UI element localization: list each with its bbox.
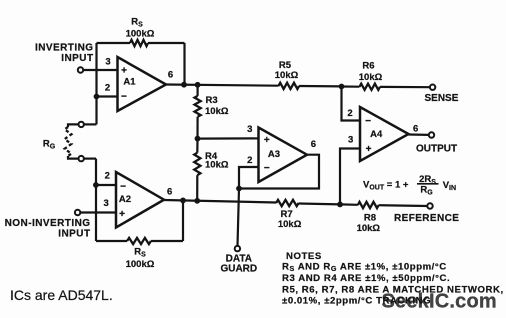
svg-text:6: 6	[413, 123, 418, 134]
wire RS top rail left segment	[97, 42, 131, 44]
op-amp A2	[116, 172, 164, 228]
wire data guard drop	[238, 189, 240, 246]
wire A2 output rail to R7	[164, 200, 276, 203]
svg-text:R8: R8	[364, 213, 376, 224]
node junction RS bottom leg / A2 output	[180, 198, 186, 204]
svg-text:INPUT: INPUT	[61, 53, 93, 64]
node: OUTPUT terminal	[429, 132, 434, 137]
wire left vertical rail (RG bottom / A2 pin2 / RS bottom)	[95, 159, 97, 241]
wire A3 pin 3	[198, 137, 259, 139]
wire junction to R6	[342, 85, 360, 87]
wire RS bottom right leg up to A2 output	[182, 200, 184, 241]
wire inverting input to A1 pin 3	[83, 69, 117, 71]
svg-text:100kΩ: 100kΩ	[126, 29, 155, 40]
node junction R7/R8/A4 pin3	[337, 202, 343, 208]
svg-text:100kΩ: 100kΩ	[126, 259, 155, 270]
svg-text:2: 2	[347, 108, 352, 119]
svg-text:3: 3	[105, 56, 110, 67]
svg-text:10kΩ: 10kΩ	[357, 223, 381, 234]
node: non-inverting input terminal	[75, 210, 80, 215]
node: RG top terminal	[79, 122, 84, 127]
svg-text:6: 6	[168, 70, 173, 81]
node junction A3 feedback / data guard	[236, 186, 242, 192]
svg-text:SeekIC.com: SeekIC.com	[382, 291, 497, 313]
node junction A1 pin2 / RG-top rail	[94, 94, 100, 100]
resistor R8	[358, 202, 379, 208]
wire R7 to reference junction	[299, 202, 340, 205]
svg-text:A4: A4	[370, 129, 383, 140]
svg-text:10kΩ: 10kΩ	[205, 106, 229, 117]
svg-text:−: −	[365, 116, 371, 127]
svg-text:3: 3	[247, 124, 252, 135]
svg-text:R3 AND R4 ARE ±1%, ±50ppm/°C.: R3 AND R4 ARE ±1%, ±50ppm/°C.	[282, 273, 450, 284]
svg-text:+: +	[264, 135, 270, 146]
label output equation VOUT = 1 + 2RS/RG VIN	[363, 174, 456, 197]
svg-text:A1: A1	[123, 77, 136, 88]
svg-text:3: 3	[104, 198, 109, 209]
node junction A2 pin2 / RG-bottom rail	[93, 182, 99, 188]
svg-text:2: 2	[105, 82, 110, 93]
wire left vertical rail (RS top feedback / A1 pin2 / RG top)	[95, 43, 97, 124]
node junction R3/R4/A3 pin3	[195, 136, 201, 142]
svg-text:10kΩ: 10kΩ	[205, 160, 229, 171]
svg-text:INPUT: INPUT	[58, 228, 90, 239]
svg-text:+: +	[119, 209, 125, 220]
wire A1 output rail to R5	[166, 85, 279, 86]
wire A1 pin 2	[97, 95, 118, 97]
wire A3 pin 2 hook	[239, 167, 259, 189]
node junction R5/R6/A4 pin2	[339, 84, 345, 90]
wire A4 pin 3 hook	[340, 149, 360, 205]
wire A4 pin 2 hook	[342, 87, 361, 121]
wire junction to R8	[340, 203, 358, 206]
resistor RS (A1 feedback)	[130, 40, 148, 46]
wire A4 output	[409, 133, 429, 136]
svg-text:−: −	[264, 163, 270, 174]
svg-text:10kΩ: 10kΩ	[275, 70, 299, 81]
svg-text:2: 2	[105, 170, 110, 181]
resistor RG (external, dashed)	[68, 124, 79, 127]
svg-text:SENSE: SENSE	[425, 93, 459, 104]
svg-text:6: 6	[311, 139, 316, 150]
svg-text:R6: R6	[362, 61, 374, 72]
wire R8 to reference terminal	[379, 204, 428, 207]
resistor RS (A2 feedback)	[127, 238, 151, 244]
svg-text:10kΩ: 10kΩ	[278, 219, 302, 230]
svg-text:2: 2	[247, 155, 252, 166]
wire RS top rail right segment	[148, 42, 185, 44]
wire RS bottom rail	[96, 240, 127, 242]
node junction RS leg / A1 output	[181, 82, 187, 88]
svg-text:A2: A2	[119, 194, 131, 205]
resistor R7	[276, 200, 299, 206]
node junction R3 top	[195, 82, 201, 88]
svg-text:−: −	[120, 181, 126, 192]
svg-text:6: 6	[167, 186, 172, 197]
op-amp A4	[360, 107, 409, 161]
wire RG top terminal to rail	[84, 123, 97, 125]
svg-text:3: 3	[348, 135, 353, 146]
wire non-inverting input to A2 pin 3	[80, 211, 116, 213]
svg-text:+: +	[121, 65, 127, 76]
svg-text:−: −	[121, 92, 127, 103]
svg-text:GUARD: GUARD	[220, 263, 257, 274]
wire RS bottom rail right segment	[151, 240, 183, 242]
wire R5 to sense junction	[299, 85, 341, 88]
wire A3 output feedback loop	[239, 155, 319, 189]
wire RS feedback right leg down to A1 output	[183, 43, 185, 85]
resistor R4	[196, 139, 198, 153]
svg-text:ICs are AD547L.: ICs are AD547L.	[10, 287, 113, 303]
node: RG bottom terminal	[79, 156, 84, 161]
svg-text:10kΩ: 10kΩ	[359, 72, 383, 83]
wire A2 pin 2	[96, 184, 116, 186]
resistor R6	[360, 84, 381, 90]
resistor R3	[197, 85, 199, 96]
node junction R4 bottom	[194, 198, 200, 204]
op-amp A3	[259, 128, 308, 183]
wire RG bottom terminal to rail	[84, 158, 96, 160]
node: SENSE terminal	[430, 85, 435, 90]
svg-text:OUTPUT: OUTPUT	[416, 144, 457, 155]
svg-text:A3: A3	[268, 149, 280, 160]
svg-text:+: +	[366, 144, 372, 155]
svg-text:R3: R3	[206, 95, 218, 106]
op-amp A1	[118, 57, 167, 111]
svg-text:REFERENCE: REFERENCE	[394, 213, 459, 224]
wire R6 to sense terminal	[380, 86, 430, 88]
svg-text:RS AND RG ARE ±1%, ±10ppm/°C: RS AND RG ARE ±1%, ±10ppm/°C	[282, 262, 447, 274]
node: REFERENCE terminal	[427, 203, 432, 208]
svg-text:NOTES: NOTES	[286, 251, 322, 262]
resistor R5	[279, 83, 300, 89]
node: inverting input terminal	[78, 67, 83, 72]
node: DATA GUARD terminal	[235, 246, 240, 251]
